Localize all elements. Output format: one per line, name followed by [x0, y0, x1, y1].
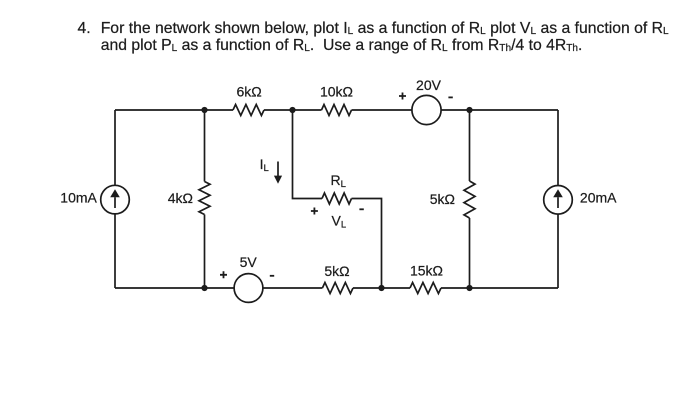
svg-text:5V: 5V [240, 254, 258, 270]
svg-text:5kΩ: 5kΩ [430, 191, 455, 207]
svg-text:10kΩ: 10kΩ [320, 84, 353, 100]
svg-text:20mA: 20mA [580, 190, 617, 206]
svg-text:5kΩ: 5kΩ [324, 263, 349, 279]
svg-text:4kΩ: 4kΩ [168, 190, 193, 206]
svg-text:RL: RL [331, 172, 346, 190]
svg-text:VL: VL [332, 213, 347, 231]
svg-text:15kΩ: 15kΩ [410, 263, 443, 279]
svg-text:20V: 20V [416, 77, 442, 93]
svg-text:10mA: 10mA [60, 189, 97, 205]
svg-text:6kΩ: 6kΩ [236, 84, 261, 100]
svg-text:IL: IL [260, 156, 269, 174]
